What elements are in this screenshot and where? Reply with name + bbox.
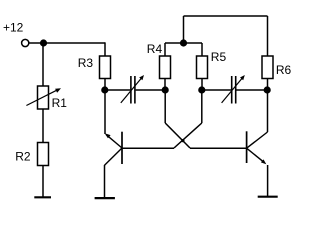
node E junction dot bbox=[198, 86, 205, 93]
wire node B to C1 bbox=[105, 89, 130, 91]
terminal +12 bbox=[22, 39, 29, 46]
wire node B down to Q1 emitter bbox=[104, 90, 106, 134]
svg-text:+12: +12 bbox=[3, 21, 24, 35]
resistor R3 bbox=[100, 56, 111, 79]
wire top rail from node A to R4/R5 bbox=[165, 42, 202, 44]
capacitor C2 (variable) bbox=[231, 76, 233, 104]
wire Q2 collector up to node F bbox=[267, 90, 269, 132]
wire diagonal to Q2 base bbox=[165, 123, 190, 148]
svg-text:R2: R2 bbox=[15, 150, 31, 164]
transistor Q2 bbox=[246, 131, 248, 163]
resistor R5 bbox=[197, 56, 208, 79]
wire down to R6 bbox=[267, 16, 269, 56]
wire Q2 emitter to ground bbox=[267, 165, 269, 196]
wire top-left rail bbox=[29, 42, 105, 44]
node F junction dot bbox=[264, 86, 271, 93]
capacitor C1 (variable) bbox=[130, 76, 132, 104]
wire vertical feed bbox=[183, 16, 185, 43]
wire R3 top lead bbox=[104, 42, 106, 56]
transistor Q1 bbox=[121, 132, 123, 164]
svg-text:R4: R4 bbox=[147, 42, 163, 56]
wire R5 bottom to node E bbox=[201, 79, 203, 91]
resistor R1 (variable) bbox=[38, 86, 49, 109]
wire R4 bottom to node C bbox=[164, 79, 166, 91]
wire node C down (to Q2 base) bbox=[164, 90, 166, 123]
wire C2 to node F bbox=[236, 89, 267, 91]
ground (Q2) bbox=[258, 196, 278, 198]
wire node E down (to Q1 base) bbox=[201, 90, 203, 123]
wire node E to C2 bbox=[202, 89, 231, 91]
ground (left) bbox=[34, 196, 51, 198]
wire R3 bottom to node B bbox=[104, 79, 106, 91]
node A junction dot bbox=[40, 39, 47, 46]
wire to R1 bbox=[42, 43, 44, 86]
svg-text:R5: R5 bbox=[211, 50, 227, 64]
wire R1 to R2 bbox=[42, 109, 44, 143]
junction (crossover blob) bbox=[181, 139, 184, 142]
wire C1 to node C bbox=[136, 89, 165, 91]
node C junction dot bbox=[162, 86, 169, 93]
svg-text:R3: R3 bbox=[78, 56, 94, 70]
ground (Q1) bbox=[95, 197, 115, 199]
wire top-right rail bbox=[184, 15, 268, 17]
wire diagonal to Q1 base bbox=[174, 123, 202, 148]
svg-text:R1: R1 bbox=[52, 96, 68, 110]
wire Q1 collector to ground bbox=[104, 165, 106, 198]
wire R6 bottom to node F bbox=[267, 79, 269, 91]
wire R5 top lead bbox=[201, 43, 203, 56]
wire R2 to ground bbox=[42, 166, 44, 198]
svg-text:R6: R6 bbox=[276, 63, 292, 77]
node B junction dot bbox=[101, 86, 108, 93]
resistor R2 bbox=[38, 143, 49, 166]
node D junction dot bbox=[180, 39, 187, 46]
resistor R6 bbox=[262, 56, 273, 79]
resistor R4 bbox=[160, 56, 171, 79]
wire R4 top lead bbox=[164, 43, 166, 56]
